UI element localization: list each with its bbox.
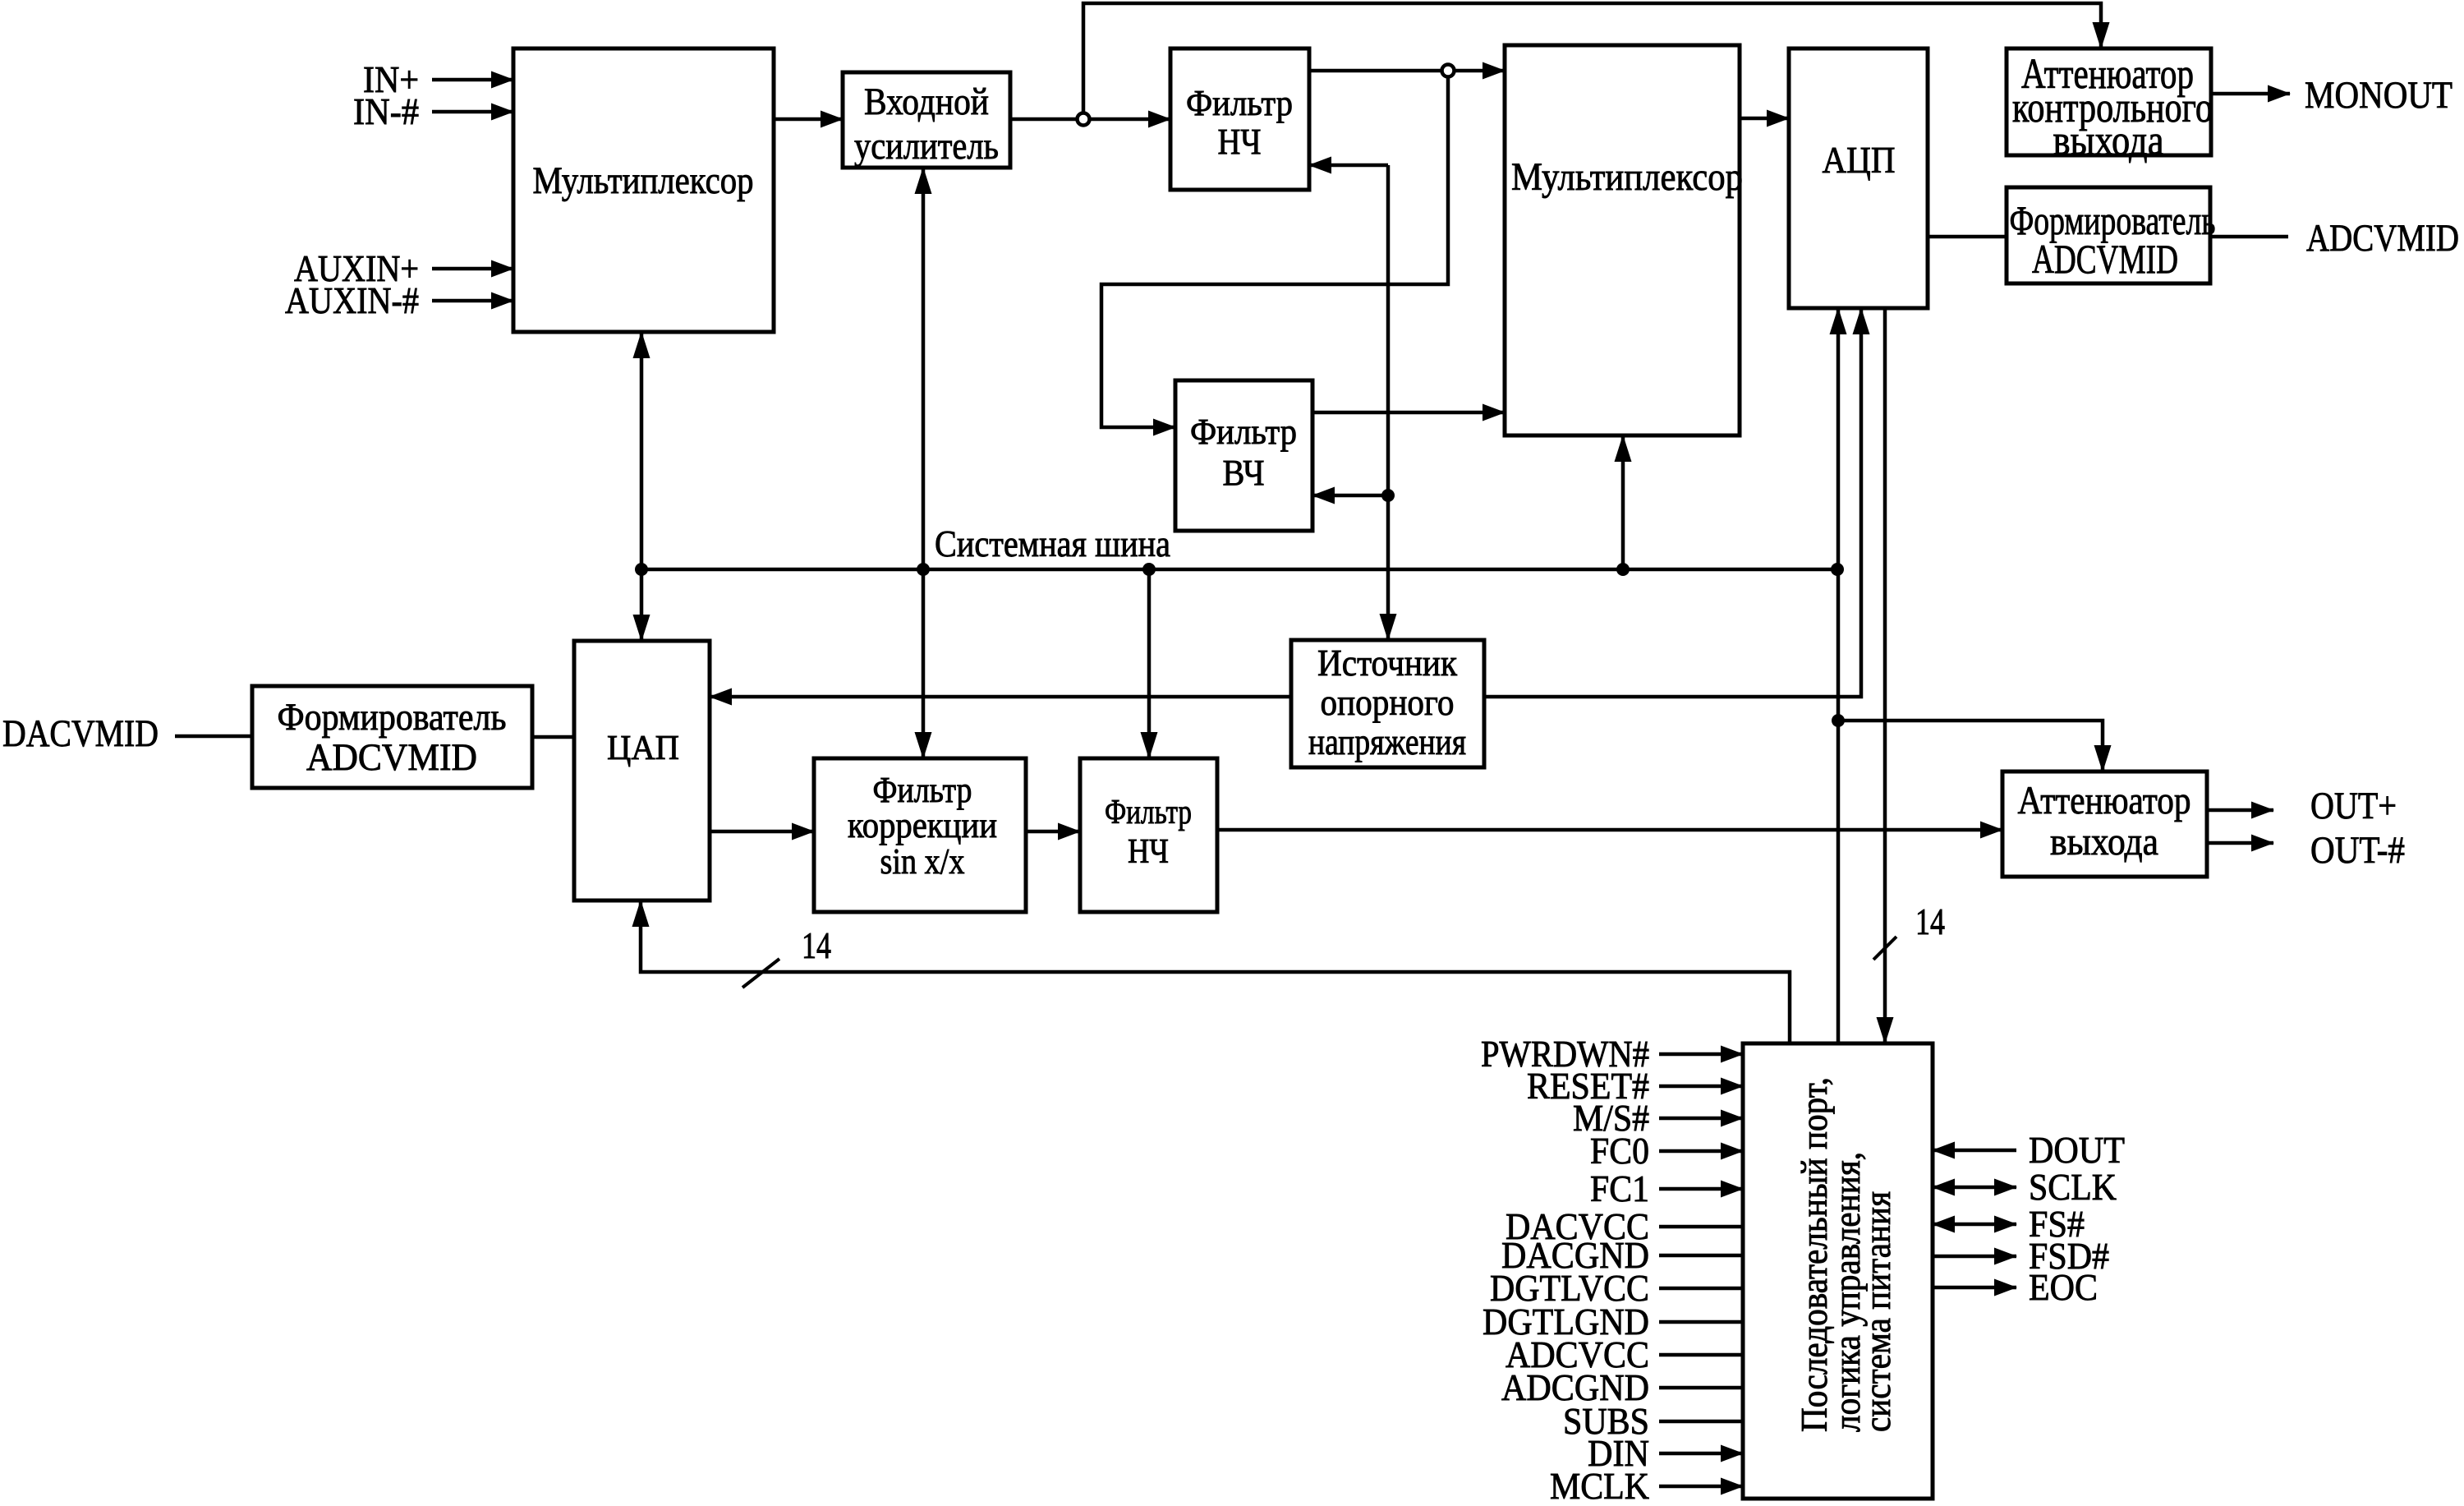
svg-text:FC0: FC0 [1590,1130,1649,1172]
svg-text:усилитель: усилитель [854,125,999,168]
wire SCLK bidirectional [1933,1166,2117,1208]
wire RESET# input [1527,1065,1743,1107]
monitor output attenuator block [2007,48,2213,164]
svg-text:sin x/x: sin x/x [880,841,965,882]
wire system bus to MUX2 bottom [1621,435,1625,569]
wire monitor attenuator to MONOUT [2211,74,2453,117]
wire EOC output [1933,1266,2098,1308]
wire branch to output attenuator top [1838,721,2103,771]
wire MUX1 to input amplifier [774,117,843,122]
svg-text:ЦАП: ЦАП [607,730,679,767]
wire DACGND [1501,1234,1743,1276]
input amplifier block [843,72,1010,168]
wire amplifier to node A [1010,117,1077,122]
svg-text:EOC: EOC [2029,1266,2098,1308]
svg-text:OUT+: OUT+ [2310,785,2397,827]
wire FSD# output [1933,1235,2109,1277]
wire M/S# input [1573,1097,1743,1139]
junction feedback/HPF [1381,489,1395,502]
svg-text:Мультиплексор: Мультиплексор [533,159,754,202]
svg-text:MCLK: MCLK [1550,1465,1649,1506]
output attenuator block [2002,771,2207,877]
DAC block [574,641,710,900]
wire feedback vertical to reference source [1386,165,1391,640]
junction bus end / ADC control [1831,563,1844,576]
svg-text:выхода: выхода [2053,117,2164,164]
wire ADC to serial port 14-bit bus [1883,308,1887,1043]
svg-text:НЧ: НЧ [1218,122,1262,162]
wire DIN input [1588,1432,1743,1474]
junction ADC control / output attenuator branch [1832,714,1845,727]
wire ADCVMID driver (left) to DAC [532,735,574,739]
wire OUT-# output [2207,829,2405,872]
wire reference source to DAC [710,695,1291,699]
svg-text:Системная шина: Системная шина [935,523,1170,564]
wire DACVCC [1506,1205,1743,1247]
wire DGTLVCC [1490,1267,1743,1309]
sin x/x correction filter block [814,758,1026,912]
svg-text:ADCVMID: ADCVMID [2032,236,2178,282]
wire MUX2 to ADC [1740,117,1789,121]
node B (open circle) [1442,65,1455,77]
serial port / control logic / power system block [1743,1043,1933,1499]
wire IN+ input [363,58,513,100]
wire node B down and around to HPF input [1101,77,1448,427]
junction bus/MUX1-DAC [635,563,648,576]
reference voltage source block [1291,640,1484,767]
wire FC1 input [1590,1167,1743,1209]
wire AUXIN-# input [285,279,513,321]
svg-text:14: 14 [802,924,831,966]
wire DOUT [1933,1129,2125,1171]
svg-text:ADCVMID: ADCVMID [2306,217,2459,260]
wire FS# bidirectional [1933,1203,2085,1245]
system bus wire [641,523,1837,569]
bus slash 14 (DAC) [742,924,831,988]
wire node A up over top to monitor attenuator [1083,3,2101,113]
ADCVMID driver block (left) [252,686,532,788]
wire feedback stub into HPF [1312,494,1388,498]
svg-text:НЧ: НЧ [1128,833,1169,871]
high-pass filter block HPF [1175,380,1312,531]
multiplexer block MUX1 [513,48,774,332]
svg-text:Источник: Источник [1317,642,1458,684]
wire reference source to ADC [1484,308,1861,697]
svg-text:14: 14 [1915,900,1945,942]
wire node A to LPF1 [1090,117,1170,122]
junction bus/LPF2 [1142,563,1156,576]
wire PWRDWN# input [1481,1033,1743,1075]
wire sinx filter to LPF2 [1026,830,1080,834]
svg-text:коррекции: коррекции [848,805,997,845]
svg-text:OUT-#: OUT-# [2310,829,2405,872]
node A (open circle) [1078,113,1090,126]
wire DGTLGND [1483,1301,1743,1343]
svg-text:MONOUT: MONOUT [2305,74,2453,117]
wire SUBS [1563,1400,1743,1442]
wire DACVMID input [2,712,252,755]
wire serial port to ADC control [1837,308,1841,1043]
svg-text:Формирователь: Формирователь [278,696,507,739]
svg-text:DOUT: DOUT [2029,1129,2125,1171]
wire ADCVMID driver to ADCVMID pin [2210,217,2459,260]
wire feedback stub into LPF1 [1309,163,1388,168]
low-pass filter block LPF2 [1080,758,1217,912]
wire amplifier/sinx filter vertical [922,168,926,758]
wire ADC to ADCVMID driver [1928,235,2007,239]
ADCVMID driver block (right) [2007,187,2216,283]
wire bus to LPF2 [1147,569,1152,758]
wire ADCVCC [1506,1333,1743,1375]
low-pass filter block LPF1 [1170,48,1309,190]
svg-text:система питания: система питания [1856,1191,1898,1432]
wire LPF2 to output attenuator [1217,828,2002,832]
wire ADCGND [1501,1366,1743,1408]
junction bus/MUX2 [1616,563,1630,576]
svg-text:Фильтр: Фильтр [1105,794,1192,831]
svg-text:Аттенюатор: Аттенюатор [2018,779,2191,822]
multiplexer block MUX2 [1505,45,1743,435]
svg-text:АЦП: АЦП [1823,140,1896,181]
wire DAC to sinx correction filter [710,830,814,834]
svg-text:Фильтр: Фильтр [1190,412,1297,452]
wire OUT+ output [2207,785,2397,827]
wire AUXIN+ input [294,247,513,289]
svg-text:Фильтр: Фильтр [873,770,972,810]
svg-text:Входной: Входной [864,81,989,123]
wire FC0 input [1590,1130,1743,1172]
wire node B to MUX2 [1455,69,1505,73]
svg-text:опорного: опорного [1321,681,1455,723]
svg-text:DACVMID: DACVMID [2,712,159,755]
wire serial port to DAC 14-bit bus [641,900,1790,1043]
svg-text:выхода: выхода [2050,820,2158,864]
ADC block [1789,48,1928,308]
bus slash 14 (ADC) [1873,900,1945,960]
svg-text:SCLK: SCLK [2029,1166,2117,1208]
wire LPF1 to node B [1309,69,1441,73]
svg-text:напряжения: напряжения [1308,721,1466,762]
svg-text:FC1: FC1 [1590,1167,1649,1209]
junction bus/amplifier vertical [917,563,930,576]
svg-text:Мультиплексор: Мультиплексор [1511,155,1743,199]
svg-text:AUXIN-#: AUXIN-# [285,279,419,321]
svg-text:ВЧ: ВЧ [1223,453,1265,493]
wire IN-# input [353,90,513,132]
svg-text:IN-#: IN-# [353,90,419,132]
wire MUX1/DAC vertical [640,332,644,641]
svg-text:Фильтр: Фильтр [1186,83,1293,123]
wire MCLK input [1550,1465,1743,1506]
svg-text:ADCVMID: ADCVMID [306,736,477,779]
wire HPF to MUX2 [1312,411,1505,415]
